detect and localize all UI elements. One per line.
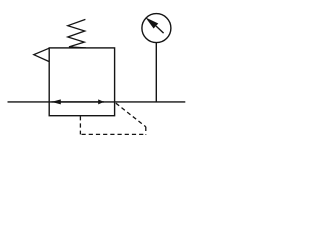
- pilot line (dashed): bottom horizontal run: [82, 133, 146, 135]
- wire: main flow line: [8, 101, 186, 103]
- pressure gauge G1 needle: [145, 17, 163, 33]
- pilot line (dashed): diagonal to flow-line node: [115, 102, 146, 127]
- flow arrow (double-headed, regulated passage): [52, 99, 105, 104]
- pilot line (dashed): riser from body bottom: [79, 116, 81, 134]
- spring (adjustment spring): [68, 19, 86, 48]
- regulator body (valve box): [49, 48, 114, 116]
- wire: gauge branch line: [155, 43, 157, 102]
- pilot line (dashed): right vertical stub: [145, 127, 147, 135]
- vent triangle (relief port): [34, 48, 49, 61]
- pressure gauge G1 (dial): [142, 14, 171, 43]
